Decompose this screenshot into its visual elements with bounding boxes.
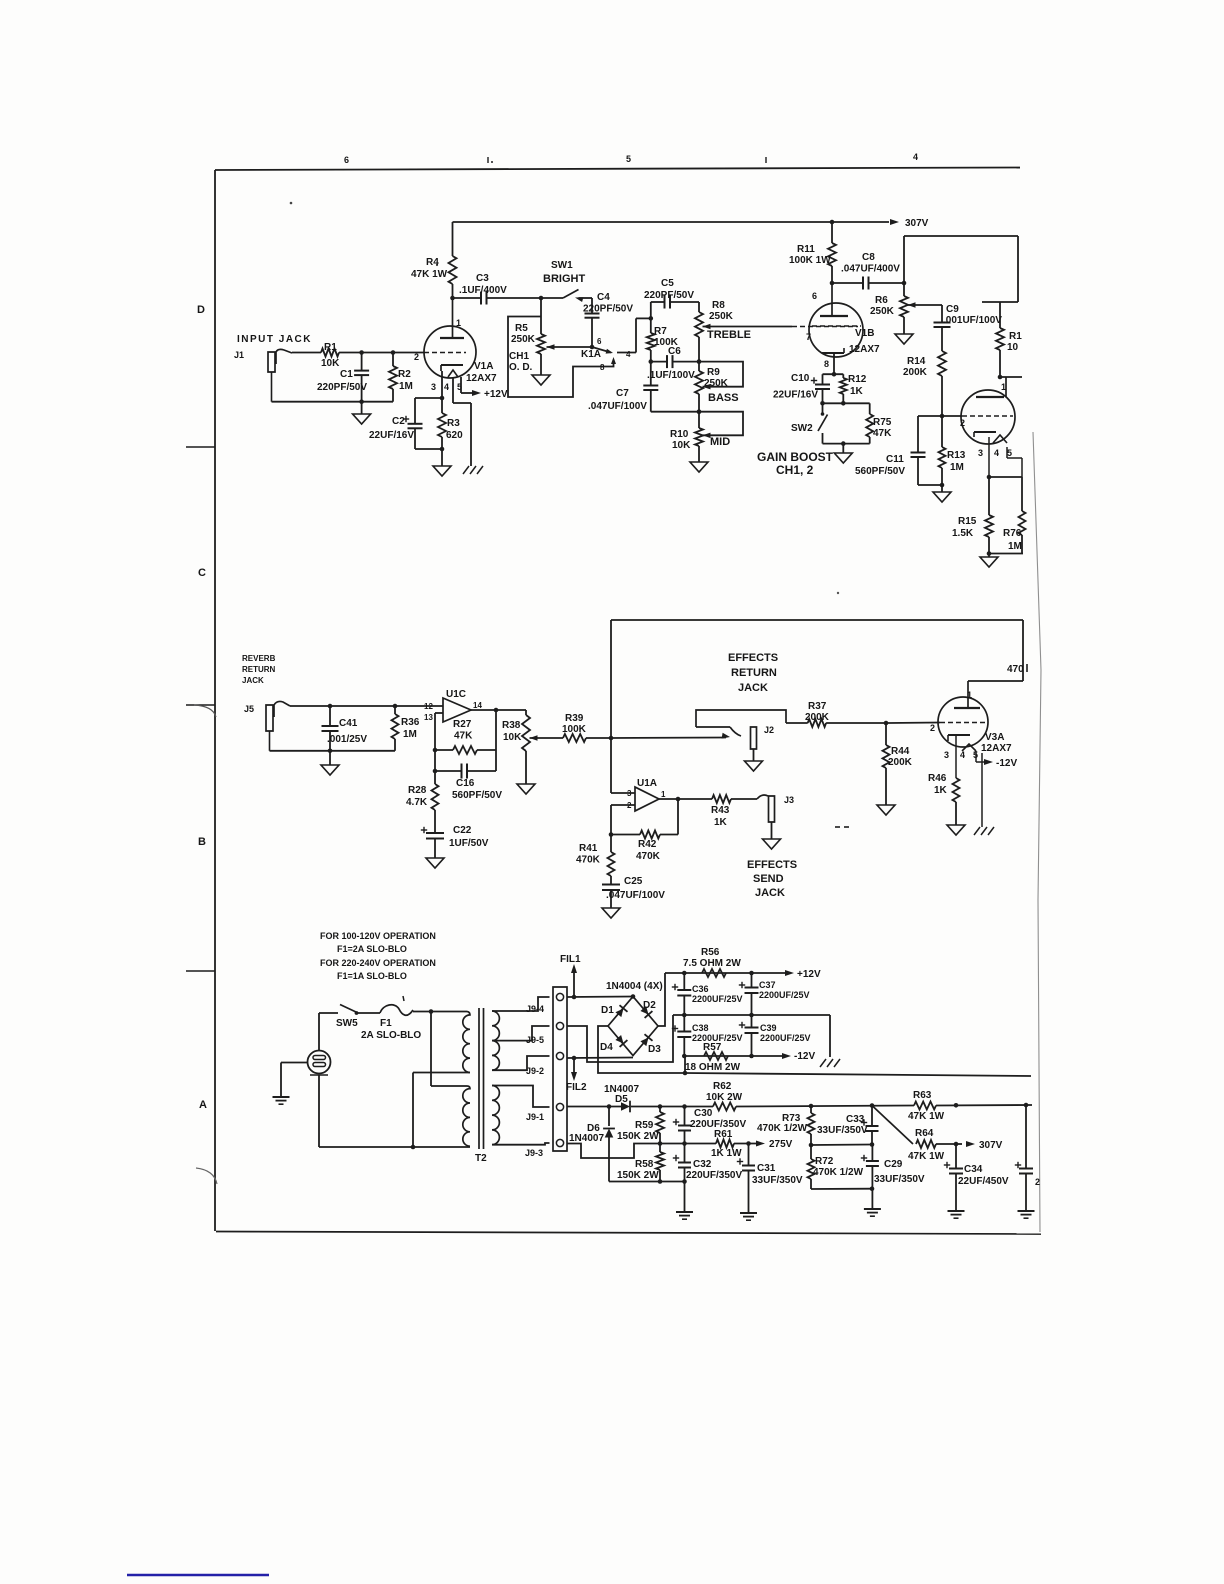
svg-text:FIL2: FIL2 [566, 1082, 587, 1093]
svg-text:220PF/50V: 220PF/50V [317, 382, 367, 393]
resistor R73 [757, 1106, 815, 1147]
resistor R28 [406, 784, 439, 833]
resistor R14 [903, 351, 946, 418]
svg-text:1K 1W: 1K 1W [711, 1148, 742, 1159]
svg-text:33UF/350V: 33UF/350V [817, 1125, 868, 1136]
label effects return jack [728, 652, 778, 694]
chassis ground (PSU) [820, 1059, 840, 1067]
jack J3 [757, 795, 794, 822]
svg-text:R1: R1 [324, 342, 337, 353]
pot R5 (CH1 O.D.) [509, 298, 592, 375]
svg-text:C10: C10 [791, 373, 810, 384]
svg-text:4: 4 [913, 152, 918, 162]
ruler tick mark [488, 157, 493, 163]
J9 pin labels [525, 1004, 544, 1158]
capacitor C30 [673, 1107, 747, 1144]
svg-text:R27: R27 [453, 719, 472, 730]
jack J2 [696, 710, 786, 749]
ground (R3) [433, 449, 451, 476]
svg-text:8: 8 [824, 359, 829, 369]
svg-text:R58: R58 [635, 1159, 654, 1170]
label PSU note [320, 931, 436, 981]
svg-text:J9-1: J9-1 [526, 1112, 544, 1122]
svg-text:C: C [198, 567, 206, 579]
capacitor C1 [317, 353, 369, 402]
wire mains bottom [319, 1075, 470, 1147]
svg-text:A: A [199, 1099, 207, 1111]
capacitor C33 [817, 1106, 879, 1145]
resistor R17 (edge cut) [996, 302, 1022, 379]
svg-text:47K 1W: 47K 1W [908, 1111, 945, 1122]
svg-text:1M: 1M [399, 381, 413, 392]
svg-text:2: 2 [414, 352, 419, 362]
svg-text:18 OHM 2W: 18 OHM 2W [685, 1062, 741, 1073]
svg-text:22UF/450V: 22UF/450V [958, 1176, 1009, 1187]
svg-text:47K 1W: 47K 1W [411, 269, 448, 280]
svg-text:12AX7: 12AX7 [466, 373, 497, 384]
svg-text:470K 1/2W: 470K 1/2W [813, 1167, 864, 1178]
svg-text:3: 3 [944, 750, 949, 760]
svg-text:1K: 1K [850, 386, 864, 397]
svg-text:J2: J2 [764, 725, 774, 735]
svg-text:R10: R10 [670, 429, 689, 440]
svg-text:10K 2W: 10K 2W [706, 1092, 743, 1103]
svg-text:R57: R57 [703, 1042, 722, 1053]
wire V3A heater to chassis [981, 753, 983, 827]
resistor R75 [866, 403, 892, 443]
ground (gain boost) [834, 453, 852, 463]
svg-text:1.5K: 1.5K [952, 528, 974, 539]
power 275V [756, 1139, 793, 1150]
svg-text:J3: J3 [784, 795, 794, 805]
pot R38 [502, 710, 538, 784]
transformer T2 secondary 1 [492, 1011, 499, 1070]
svg-text:7.5 OHM 2W: 7.5 OHM 2W [683, 958, 741, 969]
scan curl artifact [196, 1168, 217, 1184]
power 307V [956, 1140, 1003, 1151]
resistor R15 [952, 477, 993, 556]
svg-text:10K: 10K [503, 732, 522, 743]
wire +12V rail [665, 971, 786, 976]
svg-text:J9-2: J9-2 [526, 1066, 544, 1076]
zone letter D [197, 304, 205, 316]
wire J5 to U1C [290, 704, 443, 709]
svg-text:R41: R41 [579, 843, 598, 854]
zone letter A [199, 1099, 207, 1111]
resistor R12 [840, 374, 867, 406]
resistor R1 [321, 342, 340, 369]
svg-text:R44: R44 [891, 746, 910, 757]
svg-text:R11: R11 [797, 244, 815, 255]
svg-text:12: 12 [424, 702, 433, 711]
wire J1 to V1A grid [292, 350, 424, 355]
svg-text:6: 6 [812, 291, 817, 301]
svg-text:C37: C37 [759, 980, 776, 990]
svg-text:R56: R56 [701, 947, 720, 958]
power FIL2 [566, 1058, 587, 1093]
svg-text:1: 1 [661, 790, 666, 799]
ground (J2) [745, 749, 763, 771]
ground (C32) [676, 1212, 693, 1219]
svg-text:250K: 250K [511, 334, 536, 345]
svg-text:307V: 307V [905, 218, 929, 229]
svg-text:2: 2 [960, 418, 965, 428]
resistor R64 [908, 1128, 958, 1162]
svg-text:-12V: -12V [996, 758, 1017, 769]
scan speck [290, 202, 840, 595]
op-amp U1A [627, 778, 666, 811]
svg-text:U1A: U1A [637, 778, 657, 789]
svg-text:33UF/350V: 33UF/350V [752, 1175, 803, 1186]
capacitor C10 [773, 373, 830, 406]
capacitor C6 [647, 346, 701, 381]
svg-text:5: 5 [1007, 448, 1012, 458]
ground (C41) [321, 751, 339, 775]
svg-text:BASS: BASS [708, 392, 739, 404]
svg-text:8: 8 [600, 363, 605, 372]
resistor R2 [389, 353, 413, 402]
ground (C1) [353, 402, 371, 424]
svg-text:JACK: JACK [738, 682, 768, 694]
svg-text:100K: 100K [562, 724, 587, 735]
capacitor C3 [453, 273, 544, 305]
svg-text:6: 6 [597, 337, 602, 346]
svg-text:1M: 1M [950, 462, 964, 473]
svg-text:R75: R75 [873, 417, 892, 428]
svg-text:7: 7 [806, 332, 811, 342]
diode D6 1N4007 [569, 1107, 615, 1182]
wire mid loop [699, 412, 743, 436]
wire -12V rail [682, 1054, 786, 1059]
capacitor C39 [739, 1015, 811, 1056]
wire V2 plate feed [1000, 377, 1022, 397]
svg-text:B: B [198, 836, 206, 848]
capacitor C31 [737, 1144, 803, 1213]
ground (R44) [877, 805, 895, 815]
footer link underline [127, 1574, 269, 1577]
svg-text:D: D [197, 304, 205, 316]
svg-text:C38: C38 [692, 1023, 709, 1033]
capacitor C22 [421, 825, 489, 858]
wire V3A cathode [955, 735, 957, 778]
bridge rectifier 1N4004 [606, 981, 663, 1056]
scan page edge line [1033, 432, 1041, 1232]
svg-text:R38: R38 [502, 720, 521, 731]
wire U1A output [659, 797, 680, 835]
svg-text:R42: R42 [638, 839, 657, 850]
svg-text:12AX7: 12AX7 [981, 743, 1012, 754]
svg-text:C4: C4 [597, 292, 610, 303]
ground (C35) [1018, 1211, 1035, 1218]
svg-text:1M: 1M [1008, 541, 1022, 552]
wire R73/R72 node [811, 1142, 874, 1147]
pot R8 TREBLE [695, 300, 751, 341]
resistor R44 [883, 723, 913, 805]
capacitor C37 [739, 973, 810, 1015]
switch SW2 [791, 403, 828, 443]
svg-text:SW5: SW5 [336, 1018, 358, 1029]
pot R6 [870, 283, 942, 334]
svg-text:R28: R28 [408, 785, 427, 796]
svg-text:10K: 10K [321, 358, 340, 369]
AC plug [308, 1051, 331, 1076]
svg-text:R8: R8 [712, 300, 725, 311]
transformer T2 primary 1 [463, 1012, 470, 1073]
ground (C34) [948, 1211, 965, 1218]
svg-text:R3: R3 [447, 418, 460, 429]
capacitor C38 [672, 1015, 743, 1056]
ruler tick label 4 [913, 152, 918, 162]
svg-text:C33: C33 [846, 1114, 865, 1125]
diode D1 [601, 1005, 628, 1017]
wire SW2/R75 bottom [823, 441, 870, 453]
svg-text:R4: R4 [426, 257, 439, 268]
capacitor C5 [644, 278, 699, 318]
svg-text:C7: C7 [616, 388, 629, 399]
svg-text:1K: 1K [714, 817, 728, 828]
wire arrow into J2 [722, 733, 730, 739]
svg-text:R14: R14 [907, 356, 926, 367]
wire bass loop [699, 362, 743, 387]
svg-text:10K: 10K [672, 440, 691, 451]
connector J9 [553, 987, 567, 1151]
svg-text:3: 3 [978, 448, 983, 458]
V1B pin labels [806, 291, 829, 369]
diode D2 [640, 1000, 656, 1018]
svg-text:CH1, 2: CH1, 2 [776, 463, 814, 477]
ground (R15) [980, 554, 998, 568]
svg-text:13: 13 [424, 713, 433, 722]
svg-text:470: 470 [1007, 664, 1024, 675]
capacitor C9 [934, 304, 1003, 351]
scan dashes [835, 826, 849, 828]
svg-text:R9: R9 [707, 367, 720, 378]
svg-text:J9-3: J9-3 [525, 1148, 543, 1158]
zone tick B/A [186, 970, 215, 972]
svg-text:3: 3 [431, 382, 436, 392]
svg-text:10: 10 [1007, 342, 1019, 353]
svg-text:F1: F1 [380, 1018, 392, 1029]
svg-text:250K: 250K [870, 306, 895, 317]
svg-text:C36: C36 [692, 984, 709, 994]
svg-text:200K: 200K [805, 712, 830, 723]
ground (R38) [517, 784, 535, 794]
wire bridge - output [598, 1026, 687, 1075]
svg-text:F1=1A SLO-BLO: F1=1A SLO-BLO [337, 971, 407, 981]
jack J5 [244, 701, 290, 750]
wire R37 to V3A grid [886, 722, 986, 725]
svg-text:1K: 1K [934, 785, 948, 796]
svg-text:BRIGHT: BRIGHT [543, 273, 585, 285]
svg-text:EFFECTS: EFFECTS [747, 859, 797, 871]
resistor R13 [939, 416, 966, 485]
svg-text:EFFECTS: EFFECTS [728, 652, 778, 664]
svg-text:R12: R12 [848, 374, 867, 385]
svg-text:R59: R59 [635, 1120, 654, 1131]
zone letter C [198, 567, 206, 579]
svg-text:D3: D3 [648, 1044, 661, 1055]
resistor R27 [435, 719, 496, 754]
resistor R42 [611, 831, 678, 863]
svg-text:4: 4 [626, 350, 631, 359]
wire 0V mid rail [673, 1013, 830, 1057]
svg-text:C16: C16 [456, 778, 475, 789]
resistor R61 [711, 1129, 742, 1159]
wire 275V rail [567, 1141, 757, 1158]
svg-text:.001/25V: .001/25V [327, 734, 367, 745]
chassis ground (V3A) [974, 827, 994, 835]
svg-text:47K 1W: 47K 1W [908, 1151, 945, 1162]
wire U1A pin3 [611, 792, 635, 794]
svg-text:FOR 100-120V OPERATION: FOR 100-120V OPERATION [320, 931, 436, 941]
svg-text:FIL1: FIL1 [560, 954, 581, 965]
svg-text:F1=2A SLO-BLO: F1=2A SLO-BLO [337, 944, 407, 954]
svg-text:SW1: SW1 [551, 260, 573, 271]
ruler tick mark [765, 157, 767, 163]
wire V1A cathode [415, 371, 444, 400]
svg-text:200K: 200K [888, 757, 913, 768]
svg-text:4: 4 [994, 448, 999, 458]
power +12V (V1A) [461, 389, 508, 400]
svg-text:4.7K: 4.7K [406, 797, 428, 808]
svg-text:R1: R1 [1009, 331, 1022, 342]
svg-text:22UF/16V: 22UF/16V [369, 430, 414, 441]
wire diagonal to R64 [872, 1106, 913, 1145]
resistor R46 [928, 773, 960, 825]
transformer T2 secondary 2 [492, 1086, 499, 1145]
svg-text:REVERB: REVERB [242, 654, 276, 663]
label T2 [475, 1153, 487, 1164]
svg-text:R39: R39 [565, 713, 584, 724]
wire V2 heater [1007, 447, 1022, 477]
wire effects bus [611, 620, 1023, 793]
ground (R5) [532, 375, 550, 385]
power -12V [782, 1051, 815, 1062]
resistor R7 [647, 318, 679, 364]
svg-text:R46: R46 [928, 773, 947, 784]
svg-text:J9-4: J9-4 [526, 1004, 544, 1014]
svg-text:100K 1W: 100K 1W [789, 255, 831, 266]
wire J9-5 center tap [567, 1015, 673, 1062]
power 307V [890, 218, 929, 229]
wire V3A plate feed [968, 620, 1023, 681]
capacitor C2 [369, 398, 442, 449]
zone letter B [198, 836, 206, 848]
svg-text:2: 2 [930, 723, 935, 733]
svg-text:250K: 250K [709, 311, 734, 322]
svg-text:+12V: +12V [484, 389, 508, 400]
svg-text:22UF/16V: 22UF/16V [773, 390, 818, 401]
wire input bottom loop [272, 399, 394, 404]
svg-text:33UF/350V: 33UF/350V [874, 1174, 925, 1185]
jack J1 [234, 349, 292, 401]
svg-text:C6: C6 [668, 346, 681, 357]
wire V1A heater [453, 377, 471, 466]
svg-text:C29: C29 [884, 1159, 903, 1170]
svg-text:C1: C1 [340, 369, 353, 380]
wire bridge + output [658, 973, 665, 1026]
svg-text:C9: C9 [946, 304, 959, 315]
power +12V [785, 969, 821, 980]
wire R72 bottom [811, 1186, 874, 1208]
svg-text:470K: 470K [576, 855, 601, 866]
ground (C31) [740, 1213, 757, 1220]
label GAIN BOOST [757, 450, 834, 477]
wire K1A to tone stack [636, 316, 653, 352]
svg-text:2: 2 [1035, 1177, 1040, 1187]
svg-text:O. D.: O. D. [509, 362, 533, 373]
svg-text:JACK: JACK [242, 676, 264, 685]
svg-text:V1B: V1B [855, 328, 874, 339]
pot R9 BASS [695, 337, 739, 404]
svg-text:C39: C39 [760, 1023, 777, 1033]
svg-text:SW2: SW2 [791, 423, 813, 434]
svg-text:J9-5: J9-5 [526, 1035, 544, 1045]
ground (J3) [763, 822, 781, 849]
svg-text:150K 2W: 150K 2W [617, 1170, 659, 1181]
svg-text:RETURN: RETURN [731, 667, 777, 679]
wire heater runner [685, 1073, 1031, 1076]
tube V2 12AX7 [961, 390, 1015, 444]
svg-text:.047UF/400V: .047UF/400V [841, 264, 900, 275]
svg-text:1UF/50V: 1UF/50V [449, 838, 489, 849]
svg-text:C22: C22 [453, 825, 472, 836]
svg-text:5: 5 [626, 154, 631, 164]
svg-text:C8: C8 [862, 252, 875, 263]
wire V2 cathode [987, 437, 1022, 479]
svg-text:C30: C30 [694, 1108, 713, 1119]
svg-text:R43: R43 [711, 805, 730, 816]
wire F1 to T2 primary [413, 1009, 467, 1014]
svg-text:C32: C32 [693, 1159, 712, 1170]
svg-text:GAIN BOOST: GAIN BOOST [757, 450, 834, 464]
svg-text:1M: 1M [403, 729, 417, 740]
svg-text:C25: C25 [624, 876, 643, 887]
wire primary 1 bottom [411, 1073, 470, 1150]
ruler tick label 6 [344, 155, 349, 165]
svg-text:R37: R37 [808, 701, 827, 712]
svg-text:R64: R64 [915, 1128, 934, 1139]
resistor R72 [808, 1145, 864, 1189]
svg-text:.1UF/100V: .1UF/100V [647, 370, 695, 381]
svg-text:R15: R15 [958, 516, 977, 527]
svg-text:470K: 470K [636, 851, 661, 862]
svg-text:R62: R62 [713, 1081, 732, 1092]
power FIL1 [560, 954, 581, 997]
capacitor C16 [435, 764, 502, 802]
svg-text:D2: D2 [643, 1000, 656, 1011]
resistor R39 [530, 713, 614, 742]
wire V1B cathode [823, 353, 844, 377]
wire U1A pin2 [609, 805, 635, 837]
op-amp U1C [424, 689, 482, 722]
svg-text:.1UF/400V: .1UF/400V [459, 285, 507, 296]
capacitor C7 [588, 362, 701, 414]
svg-text:SEND: SEND [753, 873, 784, 885]
svg-text:275V: 275V [769, 1139, 793, 1150]
resistor R59 [617, 1107, 664, 1144]
wire B+ branch [904, 236, 1018, 302]
wire treble wiper to V1B grid [703, 326, 859, 328]
svg-text:220PF/50V: 220PF/50V [644, 290, 694, 301]
ground (R46) [947, 825, 965, 835]
resistor R76 (edge cut) [1003, 477, 1026, 554]
tube V1A 12AX7 [424, 298, 497, 384]
ground (C22) [426, 858, 444, 868]
svg-text:560PF/50V: 560PF/50V [855, 466, 905, 477]
resistor R3 [438, 398, 463, 451]
svg-text:150K 2W: 150K 2W [617, 1131, 659, 1142]
